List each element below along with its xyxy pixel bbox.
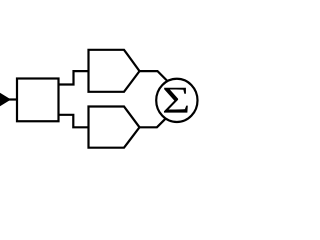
wire square to lower filter [59,115,89,128]
sigma label [164,88,188,113]
wire lower filter to summer [140,118,167,128]
input arrow [0,93,17,105]
wire square to upper filter [59,71,89,84]
filter block F2 (lower pentagon) [89,107,140,148]
wire upper filter to summer [140,71,168,81]
filter block F1 (upper pentagon) [89,50,140,92]
block U1 (square) [17,79,59,122]
summing junction U2 (circle) [156,79,197,122]
